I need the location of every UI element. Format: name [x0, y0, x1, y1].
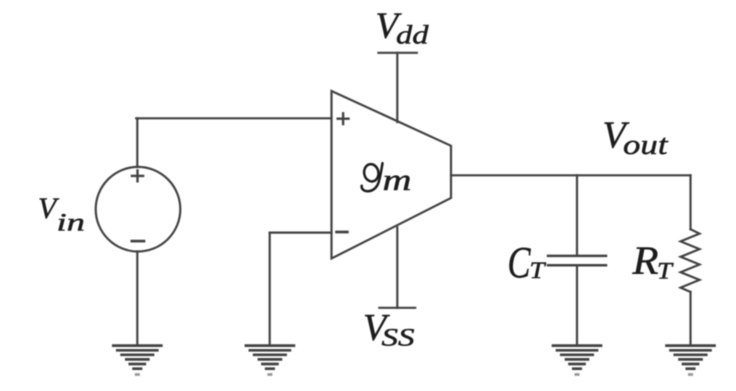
ground below resistor — [667, 346, 715, 375]
svg-text:RT: RT — [631, 238, 674, 284]
wire minus input vertical — [269, 233, 271, 346]
wire Vin top vertical — [136, 118, 138, 167]
svg-text:Vin: Vin — [38, 192, 85, 236]
op-amp plus input mark — [338, 113, 349, 124]
wire resistor top — [689, 175, 691, 229]
power terminal Vss bar — [379, 307, 415, 309]
svg-text:CT: CT — [508, 238, 548, 287]
Vin plus mark — [132, 170, 143, 181]
wire capacitor bottom — [576, 266, 578, 346]
wire resistor bottom — [689, 292, 691, 346]
capacitor C_T plates — [548, 256, 606, 265]
wire Vdd vertical — [396, 53, 398, 122]
resistor R_T zigzag — [681, 229, 700, 292]
wire top horizontal to + input — [136, 117, 331, 119]
wire capacitor top — [576, 175, 578, 255]
wire output horizontal — [451, 174, 691, 176]
svg-text:Vout: Vout — [603, 115, 670, 161]
svg-text:m: m — [383, 162, 412, 197]
svg-text:Vdd: Vdd — [376, 6, 430, 50]
wire Vin bottom vertical — [136, 252, 138, 346]
svg-text:VSS: VSS — [363, 307, 415, 351]
power terminal Vdd bar — [378, 52, 416, 54]
ground below capacitor — [553, 346, 601, 375]
wire Vss vertical — [396, 228, 398, 308]
ground below minus input — [246, 346, 294, 375]
label gm — [362, 162, 412, 197]
Vin minus mark — [132, 240, 144, 243]
ground below Vin — [113, 346, 161, 375]
op-amp gm body — [332, 91, 452, 259]
op-amp minus input mark — [337, 231, 348, 234]
wire minus input horizontal — [270, 232, 332, 234]
voltage source V_in — [96, 167, 181, 252]
